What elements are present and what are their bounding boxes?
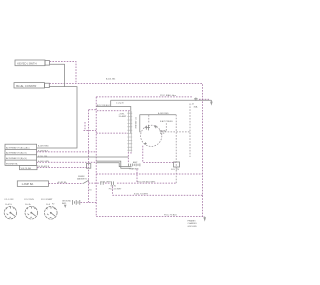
svg-text:AMP: AMP (133, 161, 138, 164)
svg-text:B 16L 7G WHT: B 16L 7G WHT (134, 194, 149, 196)
svg-text:FRAME /: FRAME / (188, 220, 197, 223)
svg-text:A 16R RED: A 16R RED (38, 145, 49, 148)
svg-text:B+ S: B+ S (160, 133, 165, 135)
svg-text:F2-2 RUN: F2-2 RUN (24, 199, 34, 201)
svg-text:B+S: B+S (46, 204, 51, 206)
svg-text:P/CC B/ALL Aux: P/CC B/ALL Aux (160, 94, 177, 97)
svg-text:MAGNETO: MAGNETO (77, 178, 88, 181)
svg-text:SE RJ: SE RJ (111, 185, 117, 187)
svg-text:ENGINE RA: ENGINE RA (6, 162, 18, 165)
svg-text:-72/B-: -72/B- (119, 113, 125, 115)
svg-text:1 amp B: 1 amp B (116, 102, 124, 104)
svg-text:SOL 12V: SOL 12V (171, 169, 180, 171)
svg-text:ALTERNATOR (AC)-(AC): ALTERNATOR (AC)-(AC) (6, 146, 30, 149)
svg-text:S1: S1 (89, 190, 91, 192)
svg-text:1 AMP BA: 1 AMP BA (22, 182, 34, 186)
svg-text:20 AMP: 20 AMP (119, 115, 127, 118)
svg-text:CHASSIS: CHASSIS (188, 222, 198, 225)
svg-text:CC-103 BLK: CC-103 BLK (134, 117, 136, 129)
svg-text:P/CC 7G BLK: P/CC 7G BLK (164, 215, 177, 217)
svg-text:A 16R RED: A 16R RED (158, 112, 169, 115)
svg-text:B+M G: B+M G (5, 204, 12, 206)
svg-text:F2-1 OFF: F2-1 OFF (5, 199, 15, 201)
svg-text:P/CC 16 WHT: P/CC 16 WHT (109, 188, 122, 190)
svg-text:GROUND: GROUND (188, 226, 198, 228)
svg-text:KEYED | SWTH: KEYED | SWTH (17, 61, 36, 65)
svg-text:B A/T PRESS: B A/T PRESS (160, 120, 173, 123)
svg-text:ALTERNATOR (B) (G): ALTERNATOR (B) (G) (6, 152, 27, 155)
svg-text:F2-3 START: F2-3 START (41, 198, 53, 201)
svg-text:BAT-: BAT- (62, 202, 67, 205)
svg-text:P/CC RS BLK WHT: P/CC RS BLK WHT (137, 181, 156, 183)
svg-text:STARTER: STARTER (129, 167, 139, 170)
svg-text:VOLTS RA: VOLTS RA (21, 167, 32, 170)
svg-text:BLUE, CONNTR: BLUE, CONNTR (16, 84, 36, 88)
svg-text:A 20L Blk: A 20L Blk (106, 78, 116, 81)
svg-text:B+L A: B+L A (25, 203, 31, 206)
svg-text:30A: 30A (194, 105, 198, 108)
svg-text:ALTERNATOR (B)-(G): ALTERNATOR (B)-(G) (6, 157, 27, 160)
svg-text:B 16L WHT: B 16L WHT (101, 181, 112, 183)
svg-text:B/CC RS BLK: B/CC RS BLK (97, 105, 111, 107)
